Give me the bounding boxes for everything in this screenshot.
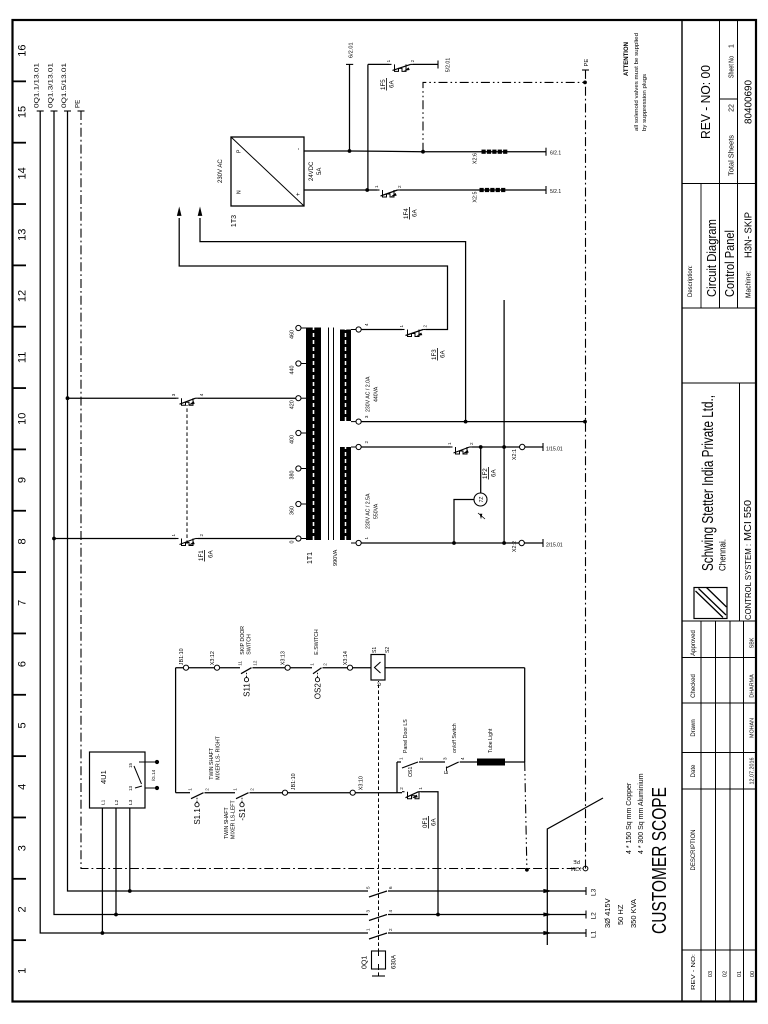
svg-text:PE: PE	[573, 858, 580, 864]
svg-text:1F5: 1F5	[380, 79, 387, 90]
svg-text:X2:1: X2:1	[512, 449, 518, 460]
svg-text:L2: L2	[591, 912, 598, 920]
svg-text:4: 4	[388, 910, 393, 913]
svg-text:12.07.2016: 12.07.2016	[750, 758, 756, 785]
svg-text:E: E	[444, 770, 450, 774]
svg-text:0Q1.5/13.01: 0Q1.5/13.01	[61, 62, 68, 108]
svg-text:5/2.01: 5/2.01	[446, 58, 452, 73]
svg-text:JB1:10: JB1:10	[179, 648, 185, 665]
svg-text:4 * 150 Sq mm Copper: 4 * 150 Sq mm Copper	[626, 782, 633, 854]
svg-text:X3:14: X3:14	[343, 651, 349, 665]
svg-text:H3N- SKIP: H3N- SKIP	[743, 212, 755, 258]
svg-text:6/2.1: 6/2.1	[550, 151, 561, 157]
svg-text:1: 1	[171, 534, 176, 537]
svg-text:5: 5	[17, 722, 29, 728]
svg-text:630A: 630A	[392, 955, 398, 969]
svg-text:MIXER LS- RIGHT: MIXER LS- RIGHT	[216, 735, 222, 779]
svg-text:0Q1: 0Q1	[362, 956, 369, 969]
svg-text:Description:: Description:	[688, 265, 694, 297]
svg-text:380: 380	[290, 471, 296, 480]
svg-text:L1: L1	[100, 799, 106, 805]
svg-text:+: +	[296, 192, 302, 196]
svg-text:4 * 300 Sq mm Aluminium: 4 * 300 Sq mm Aluminium	[638, 773, 645, 854]
svg-text:0Q1.1/13.01: 0Q1.1/13.01	[34, 62, 41, 108]
svg-text:230V AC / 2.5A: 230V AC / 2.5A	[366, 493, 372, 529]
svg-text:2: 2	[205, 788, 210, 791]
svg-text:2: 2	[469, 442, 474, 445]
svg-text:N: N	[237, 190, 243, 194]
svg-text:Schwing Stetter India Private: Schwing Stetter India Private Ltd.,	[700, 395, 717, 571]
svg-text:6A: 6A	[431, 818, 438, 826]
svg-text:Machine:: Machine:	[746, 271, 753, 298]
svg-text:6/2.01: 6/2.01	[349, 42, 355, 58]
svg-text:4: 4	[17, 784, 29, 790]
svg-text:15: 15	[17, 106, 29, 118]
svg-text:6: 6	[388, 886, 393, 889]
svg-text:2: 2	[397, 185, 402, 188]
svg-text:/G.14: /G.14	[151, 769, 156, 781]
svg-text:ATTENTION: ATTENTION	[624, 42, 630, 76]
svg-text:CONTROL SYSTEM :: CONTROL SYSTEM :	[744, 544, 753, 620]
svg-text:230V AC: 230V AC	[218, 159, 224, 183]
svg-text:U: U	[377, 682, 383, 686]
svg-text:4: 4	[364, 323, 369, 326]
svg-text:5: 5	[366, 886, 371, 889]
svg-text:3: 3	[17, 845, 29, 851]
svg-text:14: 14	[17, 167, 29, 179]
svg-text:400: 400	[290, 435, 296, 444]
svg-text:L3: L3	[591, 888, 598, 896]
svg-text:MIXER LS-LEFT: MIXER LS-LEFT	[231, 800, 237, 839]
svg-text:1: 1	[386, 59, 391, 62]
svg-text:1F4: 1F4	[403, 208, 410, 219]
svg-text:0: 0	[290, 541, 296, 544]
svg-text:-S1: -S1	[238, 808, 247, 821]
svg-text:SBK: SBK	[750, 637, 756, 648]
svg-text:REV - NO: 00: REV - NO: 00	[698, 65, 713, 139]
svg-text:12: 12	[253, 660, 258, 666]
svg-text:JB1:10: JB1:10	[291, 773, 297, 790]
svg-text:6A: 6A	[208, 550, 215, 558]
svg-text:5/2.1: 5/2.1	[550, 189, 561, 195]
svg-text:22: 22	[729, 104, 736, 112]
svg-text:1F2: 1F2	[482, 468, 489, 479]
svg-text:3: 3	[443, 757, 448, 760]
svg-text:S2: S2	[385, 647, 391, 653]
svg-text:1: 1	[310, 663, 315, 666]
svg-text:1: 1	[366, 928, 371, 931]
svg-text:1: 1	[399, 757, 404, 760]
svg-text:360: 360	[290, 506, 296, 515]
svg-text:2/15.01: 2/15.01	[546, 543, 563, 549]
svg-text:S11: S11	[242, 683, 251, 697]
svg-text:3Ø 415V: 3Ø 415V	[603, 898, 612, 928]
svg-text:X3:10: X3:10	[359, 776, 365, 790]
svg-text:MCI 550: MCI 550	[742, 500, 754, 541]
svg-text:Circuit Diagram: Circuit Diagram	[705, 219, 719, 297]
svg-text:6A: 6A	[491, 469, 498, 477]
svg-text:X2:5: X2:5	[473, 192, 479, 203]
svg-text:5A: 5A	[317, 168, 323, 175]
svg-text:7Z: 7Z	[479, 497, 485, 503]
svg-text:TWIN SHAFT: TWIN SHAFT	[224, 806, 230, 839]
svg-text:Panel Door LS: Panel Door LS	[403, 719, 409, 753]
svg-text:460: 460	[290, 330, 296, 339]
svg-text:L1: L1	[591, 930, 598, 938]
svg-text:3: 3	[364, 415, 369, 418]
svg-text:1: 1	[233, 788, 238, 791]
svg-text:6A: 6A	[412, 209, 419, 217]
svg-text:Tube Light: Tube Light	[488, 728, 494, 753]
svg-text:S1.1: S1.1	[193, 808, 202, 825]
svg-text:1: 1	[364, 537, 369, 540]
svg-text:2: 2	[199, 534, 204, 537]
svg-text:OS2: OS2	[313, 683, 322, 700]
svg-text:11: 11	[17, 352, 29, 363]
svg-text:00: 00	[750, 971, 756, 977]
svg-text:01: 01	[737, 971, 743, 977]
svg-text:15: 15	[128, 762, 133, 768]
svg-text:2: 2	[388, 928, 393, 931]
svg-text:E.SWITCH: E.SWITCH	[314, 629, 320, 655]
svg-text:2: 2	[419, 757, 424, 760]
svg-text:Approved: Approved	[691, 630, 697, 656]
svg-text:6A: 6A	[440, 350, 447, 358]
svg-text:1: 1	[399, 325, 404, 328]
svg-text:-X2M: -X2M	[571, 865, 583, 871]
svg-text:10: 10	[17, 413, 29, 425]
svg-text:Drawn: Drawn	[691, 719, 697, 736]
svg-text:1F3: 1F3	[431, 349, 438, 360]
svg-text:1: 1	[418, 787, 423, 790]
svg-text:S1: S1	[372, 647, 378, 653]
svg-text:02: 02	[723, 971, 729, 977]
svg-text:on/off Switch: on/off Switch	[452, 723, 458, 753]
svg-text:2: 2	[399, 787, 404, 790]
svg-text:PE: PE	[75, 100, 82, 108]
svg-text:REV - NO:: REV - NO:	[691, 954, 697, 990]
svg-text:3: 3	[171, 393, 176, 396]
svg-text:420: 420	[290, 400, 296, 409]
svg-text:PE: PE	[584, 59, 590, 67]
svg-text:230V AC / 2.0A: 230V AC / 2.0A	[366, 376, 372, 412]
svg-text:8: 8	[17, 538, 29, 544]
svg-text:12: 12	[17, 290, 29, 302]
svg-text:2: 2	[250, 788, 255, 791]
svg-text:11: 11	[238, 660, 243, 665]
svg-text:all solenoid valves must be su: all solenoid valves must be supplied	[634, 33, 640, 131]
svg-text:by suppression plugs: by suppression plugs	[642, 74, 648, 131]
svg-text:DESCRIPTION: DESCRIPTION	[691, 829, 697, 870]
svg-text:9: 9	[17, 477, 29, 483]
svg-text:SWITCH: SWITCH	[247, 634, 253, 655]
svg-text:Total Sheets: Total Sheets	[729, 134, 736, 176]
svg-text:2: 2	[364, 441, 369, 444]
svg-text:1T3: 1T3	[231, 215, 238, 227]
svg-text:L2: L2	[114, 799, 120, 805]
svg-text:DHARMA: DHARMA	[750, 674, 756, 698]
svg-text:Control Panel: Control Panel	[723, 230, 737, 297]
svg-text:16: 16	[17, 45, 29, 57]
svg-text:80400690: 80400690	[743, 80, 755, 124]
svg-text:X2:6: X2:6	[473, 153, 479, 164]
svg-text:Sheet No: Sheet No	[729, 56, 736, 78]
svg-text:1: 1	[729, 44, 736, 48]
svg-text:3: 3	[366, 910, 371, 913]
svg-text:X3:12: X3:12	[210, 651, 216, 665]
svg-text:2: 2	[17, 906, 29, 912]
svg-text:13: 13	[17, 229, 29, 241]
svg-text:X2:2: X2:2	[512, 541, 518, 552]
svg-text:990VA: 990VA	[333, 549, 339, 566]
svg-text:0F1: 0F1	[422, 817, 429, 828]
svg-text:13: 13	[128, 785, 133, 791]
svg-text:0Q1.3/13.01: 0Q1.3/13.01	[48, 62, 55, 108]
svg-text:1: 1	[374, 185, 379, 188]
svg-text:Date: Date	[691, 764, 697, 777]
svg-text:4: 4	[460, 757, 465, 760]
svg-text:SKIP DOOR: SKIP DOOR	[240, 626, 246, 655]
svg-text:1/15.01: 1/15.01	[546, 447, 563, 453]
svg-text:Checked: Checked	[691, 674, 697, 698]
svg-text:2: 2	[323, 663, 328, 666]
svg-text:4: 4	[199, 393, 204, 396]
svg-text:4U1: 4U1	[99, 770, 108, 784]
svg-text:6A: 6A	[389, 80, 396, 88]
svg-text:6: 6	[17, 661, 29, 667]
svg-text:X3:13: X3:13	[281, 651, 287, 665]
svg-text:1F1: 1F1	[198, 550, 205, 561]
svg-text:03: 03	[708, 971, 714, 977]
svg-text:L3: L3	[128, 799, 134, 805]
svg-text:24VDC: 24VDC	[309, 161, 315, 181]
svg-text:1: 1	[17, 968, 29, 974]
svg-text:350 KVA: 350 KVA	[629, 899, 638, 928]
svg-text:440VA: 440VA	[374, 386, 380, 402]
svg-text:550VA: 550VA	[374, 503, 380, 519]
svg-text:-: -	[296, 148, 302, 150]
svg-text:50 HZ: 50 HZ	[616, 904, 625, 925]
svg-text:1: 1	[447, 442, 452, 445]
svg-text:Chennai.: Chennai.	[718, 539, 728, 571]
svg-text:2: 2	[423, 325, 428, 328]
svg-text:7: 7	[17, 600, 29, 606]
svg-text:2: 2	[410, 59, 415, 62]
svg-text:440: 440	[290, 366, 296, 375]
svg-text:CUSTOMER SCOPE: CUSTOMER SCOPE	[649, 787, 671, 934]
svg-text:1T1: 1T1	[307, 552, 314, 564]
svg-text:MOHAN: MOHAN	[750, 718, 756, 738]
svg-text:TWIN SHAFT: TWIN SHAFT	[209, 747, 215, 780]
svg-text:1: 1	[188, 788, 193, 791]
svg-text:OS1: OS1	[408, 767, 414, 777]
